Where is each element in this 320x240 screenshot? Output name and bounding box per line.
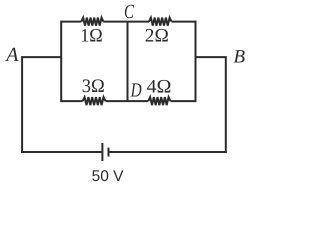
svg-text:1Ω: 1Ω xyxy=(80,26,103,47)
svg-text:D: D xyxy=(130,80,142,102)
svg-text:C: C xyxy=(124,1,134,23)
svg-text:3Ω: 3Ω xyxy=(82,76,105,97)
svg-text:A: A xyxy=(4,44,19,66)
svg-text:2Ω: 2Ω xyxy=(145,26,169,47)
svg-text:50 V: 50 V xyxy=(92,168,125,185)
svg-text:B: B xyxy=(234,47,246,68)
svg-text:4Ω: 4Ω xyxy=(147,77,172,98)
